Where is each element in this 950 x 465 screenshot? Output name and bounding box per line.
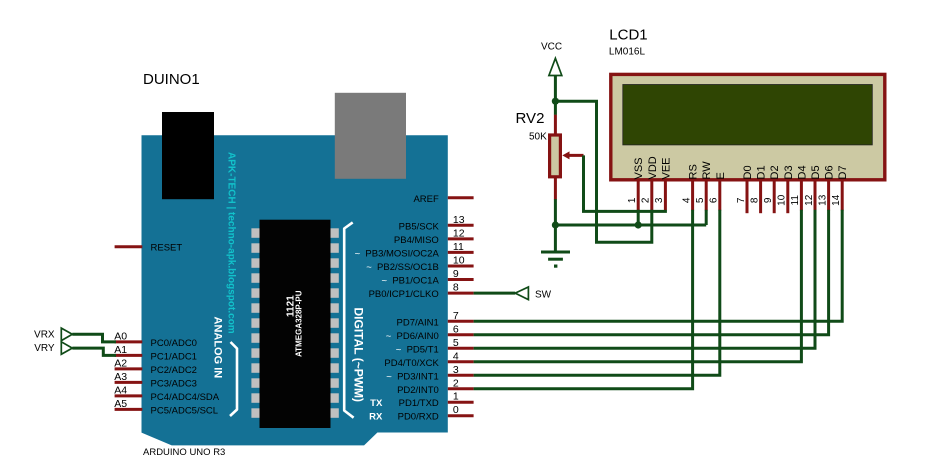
- wire PB0 to SW: [474, 292, 516, 295]
- potentiometer RV2: [516, 110, 584, 200]
- wire PD2 to LCD RS: [474, 210, 693, 389]
- pin 7 PD7/AIN1: [397, 310, 474, 329]
- ground symbol: [541, 225, 570, 268]
- svg-text:VRY: VRY: [34, 343, 55, 354]
- svg-text:TX: TX: [370, 398, 383, 409]
- svg-text:13: 13: [453, 214, 465, 226]
- LCD LM016L body: [611, 74, 885, 179]
- pin A2 (PC2/ADC2): [114, 358, 197, 376]
- svg-text:RX: RX: [369, 412, 383, 423]
- svg-text:7: 7: [453, 310, 459, 322]
- svg-text:AREF: AREF: [413, 194, 439, 205]
- wire PD4 to LCD D4: [474, 210, 802, 362]
- svg-text:~ PD5/T1: ~ PD5/T1: [396, 344, 439, 355]
- pin 0 PD0/RXD: [398, 404, 474, 423]
- svg-text:4: 4: [681, 197, 692, 203]
- svg-text:VCC: VCC: [541, 42, 562, 53]
- svg-text:PC5/ADC5/SCL: PC5/ADC5/SCL: [151, 405, 219, 416]
- LCD pin 3 VEE: [654, 157, 672, 210]
- svg-text:1: 1: [453, 391, 459, 403]
- pin A3 (PC3/ADC3): [114, 371, 197, 389]
- svg-text:D7: D7: [837, 165, 849, 179]
- svg-text:8: 8: [453, 282, 459, 294]
- svg-text:PC1/ADC1: PC1/ADC1: [151, 351, 197, 362]
- pin 12 PB4/MISO: [394, 227, 474, 246]
- svg-text:A0: A0: [114, 331, 127, 343]
- svg-text:11: 11: [453, 241, 464, 253]
- svg-text:5: 5: [453, 337, 459, 349]
- wire RV2 wiper to VEE: [584, 155, 667, 211]
- svg-text:A2: A2: [114, 358, 127, 370]
- junction VSS/ground: [635, 221, 642, 228]
- svg-text:1: 1: [627, 197, 638, 203]
- probe VRY: [34, 342, 72, 355]
- pin 6 PD6/AIN0: [386, 323, 474, 342]
- probe VRX: [34, 328, 72, 341]
- junction ground rail: [552, 221, 559, 228]
- svg-text:11: 11: [790, 195, 801, 206]
- svg-text:PD1/TXD: PD1/TXD: [399, 398, 439, 409]
- LCD pin 13 D6: [817, 165, 835, 210]
- svg-text:RS: RS: [688, 164, 700, 179]
- svg-text:6: 6: [453, 323, 459, 335]
- svg-text:13: 13: [817, 194, 828, 206]
- svg-text:PD2/INT0: PD2/INT0: [397, 385, 439, 396]
- wire PD7 to LCD D7: [474, 210, 843, 321]
- LCD pin 9 D2: [763, 165, 781, 213]
- wire VSS drop: [637, 210, 640, 225]
- ANALOG IN bracket: [230, 342, 237, 416]
- pin A5 (PC5/ADC5/SCL): [114, 398, 218, 416]
- svg-text:50K: 50K: [529, 131, 547, 142]
- svg-text:9: 9: [453, 268, 459, 280]
- Arduino board DUINO1 body: [142, 135, 448, 445]
- wire VCC to VDD net: [555, 101, 651, 242]
- svg-text:14: 14: [831, 194, 842, 206]
- DIGITAL (~PWM) bracket: [344, 222, 353, 417]
- svg-text:~ PB1/OC1A: ~ PB1/OC1A: [382, 276, 440, 287]
- pin 13 PB5/SCK: [399, 214, 474, 233]
- svg-text:5: 5: [695, 197, 706, 203]
- svg-text:D2: D2: [769, 165, 781, 179]
- svg-text:A5: A5: [114, 398, 127, 410]
- LCD pin 14 D7: [831, 165, 849, 210]
- wire PD6 to LCD D6: [474, 210, 829, 335]
- wire RW drop: [705, 210, 708, 225]
- svg-text:D5: D5: [810, 165, 822, 179]
- USB connector: [335, 93, 406, 179]
- svg-text:0: 0: [453, 404, 459, 416]
- svg-text:DUINO1: DUINO1: [143, 71, 200, 88]
- LCD pin 2 VDD: [641, 156, 659, 210]
- LCD pin 4 RS: [681, 164, 699, 210]
- LCD pin 11 D4: [790, 165, 808, 210]
- LCD pin 6 E: [709, 172, 727, 210]
- svg-text:2: 2: [641, 197, 652, 203]
- svg-text:ATMEGA328P-PU: ATMEGA328P-PU: [295, 290, 304, 357]
- svg-text:VRX: VRX: [34, 329, 55, 340]
- svg-text:SW: SW: [535, 290, 552, 301]
- svg-text:RESET: RESET: [151, 243, 183, 254]
- svg-text:8: 8: [749, 197, 760, 203]
- svg-text:PD7/AIN1: PD7/AIN1: [397, 317, 439, 328]
- pin 9 PB1/OC1A: [382, 268, 474, 287]
- wire RV2 bottom to ground: [554, 199, 557, 226]
- LCD pin 1 VSS: [627, 157, 645, 210]
- svg-text:12: 12: [453, 227, 465, 239]
- pin A0 (PC0/ADC0): [114, 331, 197, 349]
- svg-text:D6: D6: [824, 165, 836, 179]
- svg-text:VSS: VSS: [633, 157, 645, 179]
- wire ground rail to VSS and RW: [555, 224, 706, 227]
- svg-text:LM016L: LM016L: [609, 47, 646, 58]
- svg-text:PD0/RXD: PD0/RXD: [398, 412, 439, 423]
- LCD pin 7 D0: [736, 165, 754, 213]
- svg-text:A3: A3: [114, 371, 127, 383]
- wire VRY to pin A1: [72, 348, 116, 355]
- LCD pin 8 D1: [749, 165, 767, 213]
- svg-text:4: 4: [453, 350, 459, 362]
- svg-text:PC2/ADC2: PC2/ADC2: [151, 365, 197, 376]
- wire VRX to pin A0: [72, 334, 116, 342]
- svg-text:10: 10: [777, 194, 788, 206]
- svg-text:RV2: RV2: [516, 110, 545, 127]
- svg-text:PC0/ADC0: PC0/ADC0: [151, 338, 197, 349]
- svg-text:D3: D3: [783, 165, 795, 179]
- microcontroller U1 ATMEGA328P-PU: [251, 220, 338, 428]
- svg-text:~ PB3/MOSI/OC2A: ~ PB3/MOSI/OC2A: [355, 248, 440, 259]
- LCD pin 5 RW: [695, 161, 713, 211]
- wire PD3 to LCD E: [474, 210, 720, 375]
- svg-text:ANALOG IN: ANALOG IN: [212, 317, 224, 379]
- svg-text:3: 3: [654, 197, 665, 203]
- svg-text:12: 12: [804, 194, 815, 206]
- svg-text:D4: D4: [796, 165, 808, 179]
- svg-text:RW: RW: [701, 161, 713, 180]
- svg-text:APK-TECH | techno-apk.blogspot: APK-TECH | techno-apk.blogspot.com: [226, 152, 237, 334]
- LCD screen: [623, 85, 873, 145]
- probe SW: [515, 287, 551, 301]
- pin A4 (PC4/ADC4/SDA): [114, 385, 219, 403]
- svg-text:~ PB2/SS/OC1B: ~ PB2/SS/OC1B: [366, 262, 439, 273]
- pin 2 PD2/INT0: [397, 377, 474, 396]
- pin 11 PB3/MOSI/OC2A: [355, 241, 474, 260]
- pin A1 (PC1/ADC1): [114, 344, 197, 362]
- svg-text:A1: A1: [114, 344, 127, 356]
- LCD pin 10 D3: [777, 165, 795, 213]
- svg-text:9: 9: [763, 197, 774, 203]
- svg-text:PB0/ICP1/CLKO: PB0/ICP1/CLKO: [369, 289, 439, 300]
- svg-text:PC3/ADC3: PC3/ADC3: [151, 378, 197, 389]
- svg-text:2: 2: [453, 377, 459, 389]
- svg-text:3: 3: [453, 364, 459, 376]
- svg-text:PC4/ADC4/SDA: PC4/ADC4/SDA: [151, 392, 220, 403]
- DC power jack: [162, 112, 214, 199]
- svg-text:VDD: VDD: [647, 156, 659, 179]
- svg-text:PD4/T0/XCK: PD4/T0/XCK: [384, 358, 439, 369]
- svg-text:E: E: [715, 172, 727, 179]
- svg-text:10: 10: [453, 255, 465, 267]
- svg-text:LCD1: LCD1: [609, 27, 647, 44]
- svg-text:~ PD6/AIN0: ~ PD6/AIN0: [386, 331, 439, 342]
- pin 4 PD4/T0/XCK: [384, 350, 473, 369]
- wire PD5 to LCD D5: [474, 210, 815, 348]
- pin 5 PD5/T1: [396, 337, 474, 356]
- svg-text:VEE: VEE: [660, 157, 672, 179]
- svg-text:6: 6: [709, 197, 720, 203]
- pin 8 PB0/ICP1/CLKO: [369, 282, 474, 301]
- svg-text:~ PD3/INT1: ~ PD3/INT1: [386, 371, 439, 382]
- pin AREF: [413, 194, 473, 205]
- svg-text:D0: D0: [742, 165, 754, 179]
- LCD pin 12 D5: [804, 165, 822, 210]
- pin 10 PB2/SS/OC1B: [366, 255, 473, 274]
- VCC power symbol: [541, 42, 562, 115]
- pin 1 PD1/TXD: [399, 391, 474, 410]
- junction VCC/RV2: [552, 98, 559, 105]
- svg-text:D1: D1: [756, 165, 768, 179]
- svg-text:PB4/MISO: PB4/MISO: [394, 235, 439, 246]
- RV2 wiper arrow: [567, 154, 584, 157]
- svg-text:DIGITAL (~PWM): DIGITAL (~PWM): [352, 308, 366, 403]
- pin RESET: [115, 243, 183, 254]
- svg-text:ARDUINO UNO R3: ARDUINO UNO R3: [143, 447, 225, 458]
- svg-text:A4: A4: [114, 385, 127, 397]
- svg-text:7: 7: [736, 197, 747, 203]
- svg-text:PB5/SCK: PB5/SCK: [399, 221, 440, 232]
- pin 3 PD3/INT1: [386, 364, 473, 383]
